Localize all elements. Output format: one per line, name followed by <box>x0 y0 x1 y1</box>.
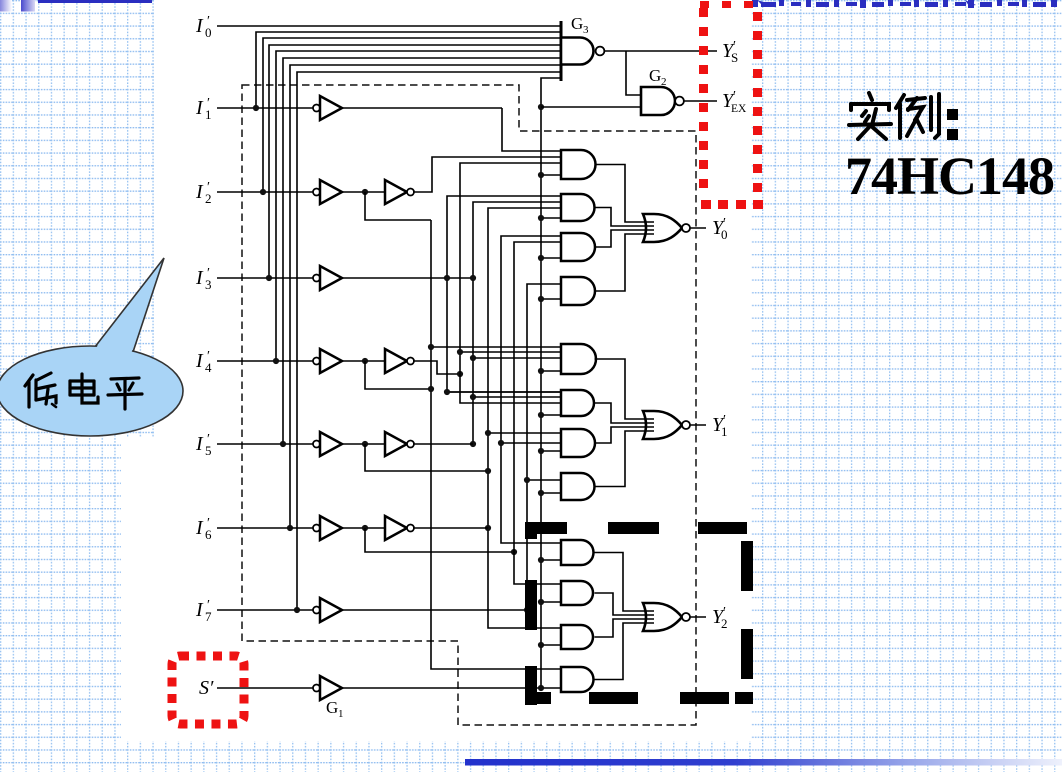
svg-text:′: ′ <box>207 349 210 364</box>
svg-text:74HC148: 74HC148 <box>845 146 1054 206</box>
svg-text:′: ′ <box>207 14 210 29</box>
svg-text:′: ′ <box>207 96 210 111</box>
svg-text:′: ′ <box>733 39 736 54</box>
svg-text:I: I <box>195 433 204 455</box>
svg-text:S′: S′ <box>199 677 214 699</box>
svg-text:I: I <box>195 350 204 372</box>
svg-text:′: ′ <box>207 516 210 531</box>
svg-text:I: I <box>195 97 204 119</box>
svg-text:3: 3 <box>583 24 589 36</box>
svg-text:I: I <box>195 267 204 289</box>
svg-text:′: ′ <box>733 89 736 104</box>
svg-text:G: G <box>571 14 583 33</box>
svg-text:I: I <box>195 599 204 621</box>
svg-text:G: G <box>326 698 338 717</box>
svg-text:′: ′ <box>207 180 210 195</box>
svg-text:′: ′ <box>207 432 210 447</box>
svg-text:′: ′ <box>723 413 726 428</box>
svg-text:2: 2 <box>661 76 667 88</box>
svg-text:1: 1 <box>338 708 344 720</box>
svg-text:I: I <box>195 181 204 203</box>
svg-text:EX: EX <box>731 103 747 115</box>
svg-text:I: I <box>195 15 204 37</box>
svg-text:I: I <box>195 517 204 539</box>
svg-text:′: ′ <box>723 605 726 620</box>
svg-text:′: ′ <box>207 598 210 613</box>
svg-text:′: ′ <box>207 266 210 281</box>
svg-text:′: ′ <box>723 216 726 231</box>
svg-text:G: G <box>649 66 661 85</box>
